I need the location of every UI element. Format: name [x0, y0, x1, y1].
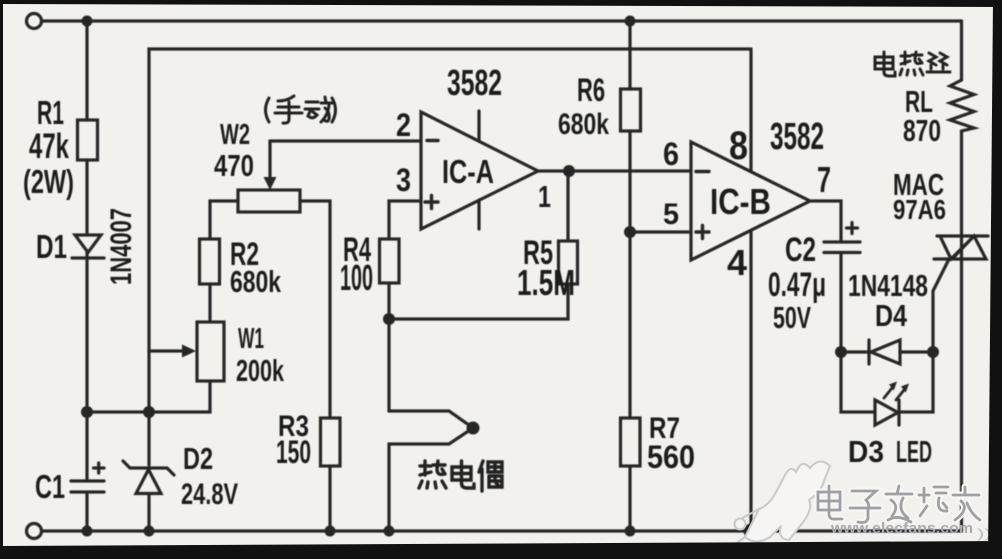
svg-text:680k: 680k: [558, 108, 609, 141]
wire W2 right to R3: [300, 201, 330, 418]
wire top rail: [42, 19, 962, 22]
svg-text:2: 2: [396, 107, 411, 143]
hanzi dong: [305, 97, 334, 122]
node dot bottom pin4: [744, 524, 759, 539]
resistor RL zigzag: [950, 80, 974, 131]
node dot top R6: [625, 16, 636, 27]
wire output IC-A to IC-B pin6: [538, 169, 691, 172]
watermark glyph shao: [919, 487, 948, 516]
resistor R5: [559, 241, 578, 284]
arrowhead W1 wiper: [182, 345, 196, 358]
svg-text:3582: 3582: [447, 62, 502, 103]
wire R4 to node: [387, 283, 390, 319]
svg-text:0.47μ: 0.47μ: [768, 266, 826, 304]
wire pin5: [630, 230, 691, 233]
svg-text:R1: R1: [37, 94, 64, 131]
capacitor C2: [824, 223, 860, 353]
wire node row 412: [87, 381, 210, 412]
svg-text:8: 8: [729, 124, 748, 168]
svg-text:D1: D1: [36, 228, 67, 265]
border left: [0, 0, 3, 559]
node dot 412 left: [81, 406, 93, 418]
node dot output IC-A: [563, 165, 575, 177]
potentiometer W2 box: [238, 190, 300, 212]
svg-text:D2: D2: [183, 441, 213, 476]
op-amp U2 IC-B triangle: [691, 142, 810, 260]
svg-text:150: 150: [276, 434, 311, 470]
wire right vertical lower: [960, 131, 963, 531]
resistor R6: [621, 89, 641, 131]
watermark glyph you: [953, 487, 980, 520]
LED D3: [875, 400, 899, 425]
wire pin7 to C2: [810, 201, 841, 242]
svg-text:D4: D4: [875, 298, 908, 333]
wire W2 wiper vertical: [268, 141, 271, 177]
wire R7 bottom: [628, 466, 631, 531]
svg-text:(2W): (2W): [23, 163, 74, 200]
svg-text:C2: C2: [785, 231, 816, 269]
terminal bottom-left: [27, 524, 42, 539]
wire R2 to W2 left: [210, 201, 238, 239]
wire R3 to bottom: [328, 466, 331, 531]
svg-text:7: 7: [817, 159, 831, 200]
node dot bottom R3: [325, 526, 336, 537]
potentiometer W1 box: [197, 322, 224, 381]
paren left of (手动): [266, 98, 270, 122]
watermark: [731, 461, 999, 547]
resistor R2: [200, 239, 220, 284]
svg-text:6: 6: [663, 136, 679, 172]
wire triac gate: [933, 259, 949, 352]
svg-text:R6: R6: [577, 72, 605, 108]
CJK drawn glyphs: [266, 52, 951, 491]
node dot pin5: [624, 226, 636, 238]
border bottom: [0, 541, 1002, 559]
wiper arrow W1: [149, 349, 183, 352]
node dot bottom thermocouple: [384, 526, 395, 537]
watermark glyph fa: [886, 486, 912, 522]
diode D1: [72, 235, 104, 258]
svg-text:100: 100: [340, 257, 373, 298]
wire thermocouple vertical: [387, 319, 390, 411]
svg-text:4: 4: [727, 242, 747, 283]
capacitor C1: [71, 412, 104, 531]
wire pin2: [270, 139, 421, 142]
svg-text:W2: W2: [220, 119, 250, 151]
terminal top-left: [27, 14, 42, 29]
zener D2: [123, 461, 174, 531]
wire rail2: [149, 49, 751, 351]
resistor R1: [78, 120, 98, 160]
op-amp IC-A minus marker: [427, 139, 438, 142]
svg-text:D3: D3: [848, 434, 884, 469]
arrowhead LED D3 b: [901, 384, 909, 393]
LED arrows D3: [884, 388, 904, 400]
hanzi dian (top right): [875, 52, 895, 76]
wire D3 loop left: [841, 352, 875, 412]
node dot 412 D2: [143, 406, 155, 418]
svg-text:97A6: 97A6: [893, 194, 946, 225]
wire R7 top: [628, 232, 631, 418]
svg-text:560: 560: [647, 439, 695, 475]
wire D3 loop right: [899, 352, 933, 412]
hanzi dian (thermocouple): [452, 461, 474, 488]
node dot thermocouple tip: [467, 422, 480, 435]
resistor R4: [380, 239, 400, 283]
svg-text:www.elecfans.com: www.elecfans.com: [830, 520, 973, 537]
wire pin8 vertical: [749, 49, 752, 171]
wire R5 top: [566, 171, 569, 241]
svg-text:50V: 50V: [773, 300, 811, 335]
border right: [988, 0, 1002, 559]
svg-text:C1: C1: [35, 468, 65, 505]
arrowhead LED D3 a: [889, 382, 897, 391]
svg-text:3: 3: [396, 162, 411, 198]
node dot R4 R5: [383, 313, 395, 325]
svg-text:1.5M: 1.5M: [517, 262, 575, 303]
op-amp IC-A plus marker: [425, 196, 438, 209]
svg-text:LED: LED: [896, 434, 932, 469]
op-amp IC-B plus marker: [696, 226, 709, 239]
wire R1 to D1: [85, 160, 88, 258]
paren right of (手动): [332, 98, 336, 122]
power tick IC-A bottom: [477, 200, 480, 229]
node dot D4 gate: [927, 346, 939, 358]
wire D1 to node: [85, 258, 88, 412]
svg-text:1N4007: 1N4007: [105, 208, 138, 285]
node dot C2 D4: [835, 346, 847, 358]
resistor R7: [621, 418, 641, 466]
svg-text:IC-B: IC-B: [710, 181, 771, 222]
thermocouple: [389, 411, 473, 531]
hanzi ou (thermocouple): [479, 461, 502, 491]
node dot top R1: [82, 16, 93, 27]
hanzi re (top right): [900, 52, 923, 75]
svg-text:1: 1: [538, 179, 551, 214]
wire W1 to R2: [208, 284, 211, 322]
wire R1 branch top: [85, 21, 88, 120]
watermark glyph dian: [818, 486, 842, 519]
wire pin4 vertical: [749, 231, 752, 531]
wire pin3: [389, 201, 421, 239]
svg-text:W1: W1: [238, 323, 264, 355]
svg-text:5: 5: [663, 198, 679, 231]
node dot bottom R7: [625, 526, 636, 537]
op-amp IC-B minus marker: [696, 170, 709, 173]
svg-text:IC-A: IC-A: [442, 153, 494, 190]
watermark bird: [731, 461, 830, 547]
wire R6 top: [628, 21, 631, 89]
border top: [0, 0, 1002, 7]
node dot bottom C1: [82, 526, 93, 537]
power tick IC-A top: [477, 111, 480, 141]
svg-text:3582: 3582: [770, 116, 824, 158]
wire R4-R5 horizontal: [389, 284, 568, 319]
wire rail2 left vertical to D2: [147, 351, 150, 465]
node dot bottom D2: [144, 526, 155, 537]
svg-text:200k: 200k: [236, 353, 285, 388]
wire right vertical upper: [960, 21, 963, 80]
hanzi si (top right): [927, 53, 950, 72]
svg-text:47k: 47k: [29, 127, 69, 166]
svg-text:680k: 680k: [230, 264, 282, 299]
svg-text:870: 870: [903, 113, 941, 148]
op-amp U1 IC-A triangle: [421, 112, 538, 229]
hanzi shou: [275, 96, 302, 123]
diode D4: [841, 340, 933, 364]
triac Q1 MAC97A6: [934, 236, 988, 259]
wire R6 bottom to pin5 node: [628, 131, 631, 232]
wire bottom rail: [42, 529, 962, 532]
svg-text:470: 470: [214, 148, 254, 183]
hanzi re (thermocouple): [419, 461, 446, 488]
svg-text:24.8V: 24.8V: [181, 478, 238, 511]
arrowhead W2 wiper: [264, 177, 277, 190]
resistor R3: [321, 418, 341, 466]
watermark glyph zi: [850, 491, 880, 523]
